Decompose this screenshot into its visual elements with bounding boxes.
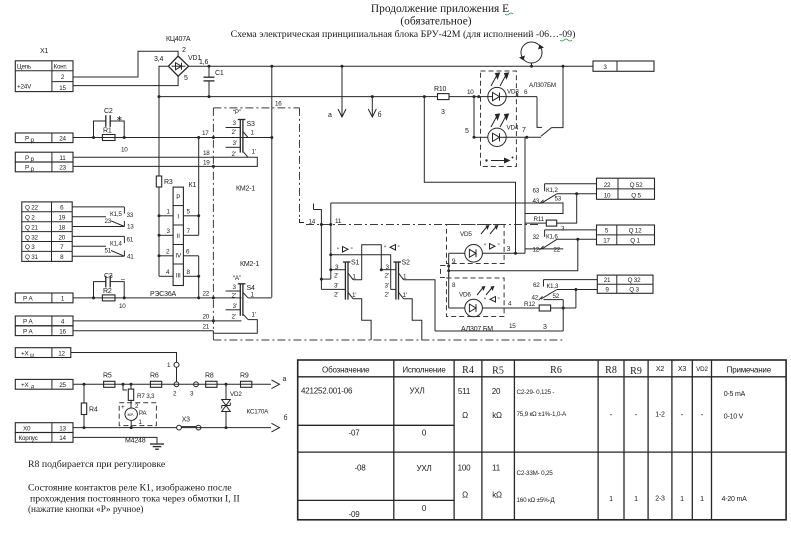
wire VD4 cathode net 7 [506,127,541,139]
svg-text:Q 1: Q 1 [630,238,640,245]
svg-text:16: 16 [275,101,282,108]
svg-text:Ω: Ω [462,491,468,500]
boundary dash-dot bottom [213,339,565,341]
svg-text:17: 17 [202,130,209,137]
LED VD3 [488,87,520,105]
boundary dash-dot left module [212,108,214,340]
capacitor C1 [204,65,224,98]
svg-text:1: 1 [680,496,684,503]
svg-text:М4248: М4248 [125,438,146,445]
ground [73,437,164,449]
svg-text:R5: R5 [492,366,504,377]
table row -09 [349,504,427,519]
capacitor C3 + resistor R2 [92,273,126,301]
svg-text:VD5: VD5 [460,231,472,238]
connector box +Хд 25 [15,379,73,390]
svg-text:Q 3: Q 3 [25,244,35,251]
mark triangle right above S1 [337,247,353,255]
switch S2 [380,260,435,341]
svg-text:R6: R6 [550,365,562,376]
svg-text:КЦ407А: КЦ407А [166,36,191,43]
jumper X3 [177,417,201,431]
bracket pins 9 8 [441,266,449,278]
svg-text:53: 53 [555,195,562,202]
svg-text:10: 10 [467,89,474,96]
K1 pin wires left 1,3,2,4 [158,209,174,277]
svg-text:КС170А: КС170А [247,409,270,416]
svg-text:К1: К1 [189,182,197,189]
svg-text:1,6: 1,6 [199,59,208,66]
svg-text:1: 1 [700,496,704,503]
svg-text:Р: Р [176,194,180,201]
switch contact to bus [541,65,565,137]
svg-text:+: + [121,404,125,411]
output box Q52 Q5 [597,178,655,199]
svg-text:R3: R3 [164,179,173,186]
svg-text:20: 20 [58,234,65,241]
svg-text:б: б [284,414,288,422]
svg-text:Х0: Х0 [23,425,31,432]
svg-text:R4: R4 [89,407,98,414]
svg-text:К1,2: К1,2 [546,187,558,194]
svg-text:33: 33 [127,212,134,219]
svg-text:17: 17 [603,238,610,245]
wire X1.15 to bridge [73,76,178,85]
svg-text:II: II [177,233,181,240]
svg-text:”: ” [351,247,353,254]
relay contact К1,4 [72,236,134,260]
label VD6 + LED arrows [459,286,495,299]
arrow out b [272,423,280,432]
wire b-line bottom [73,427,177,429]
svg-text:2-3: 2-3 [655,496,665,503]
relay contact К1,5 [72,207,134,231]
arrow a from top bus [328,65,346,119]
svg-text:Обозначение: Обозначение [322,366,370,375]
svg-text:VD2: VD2 [230,391,242,398]
svg-text:14: 14 [309,219,316,226]
bottom bus [159,66,168,96]
output box Q32 Q3 [597,275,653,293]
svg-text:Q 3: Q 3 [629,286,639,293]
svg-text:Q 2: Q 2 [25,215,35,222]
svg-text:22: 22 [203,291,210,298]
wire X1.2 to bridge [73,51,178,77]
relay contact К1,3 [532,280,598,308]
arrow b from bottom bus [368,95,381,119]
svg-text:1': 1' [403,292,407,299]
svg-text:43: 43 [533,198,540,205]
svg-text:19: 19 [58,215,65,222]
svg-text:C1: C1 [215,70,224,77]
svg-text:Р А: Р А [23,328,34,335]
svg-text:Р: Р [25,165,29,172]
svg-text:5: 5 [184,75,188,82]
LED arrows VD3 [491,73,509,86]
svg-text:52: 52 [553,293,560,300]
svg-text:+24V: +24V [17,84,32,91]
svg-text:-08: -08 [355,464,367,473]
resistor R10 net 3 [423,86,488,116]
svg-text:III: III [176,273,181,280]
svg-text:VD6: VD6 [459,292,471,299]
svg-text:1-2: 1-2 [655,412,665,419]
svg-text:Q 12: Q 12 [629,228,643,235]
svg-text:+Х: +Х [21,350,29,357]
LED VD6 net 8 / 4 [449,282,540,317]
svg-text:3: 3 [543,324,547,331]
svg-text:10: 10 [121,147,128,154]
svg-text:∗: ∗ [116,114,123,123]
svg-text:160 кΩ ±5%-Д: 160 кΩ ±5%-Д [517,497,556,504]
wire +Хш to X2 pin1 [71,353,177,363]
connector box РА 16 [15,326,73,336]
svg-text:32: 32 [533,234,540,241]
svg-text:“: “ [384,245,386,252]
svg-text:Примечание: Примечание [727,366,772,375]
svg-text:а: а [328,112,332,119]
svg-text:R10: R10 [434,86,447,93]
spellcheck squiggle under Е [505,13,513,15]
mark triangle left VD6 [484,297,500,305]
svg-text:61: 61 [127,237,134,244]
wire net 8 to К1,6 [449,239,578,270]
svg-text:15: 15 [59,85,66,92]
svg-text:14: 14 [59,435,66,442]
svg-text:13: 13 [59,425,66,432]
svg-text:25: 25 [59,382,66,389]
svg-text:а: а [283,376,287,383]
wire K1 link 6-8 to bus 22 [198,256,200,298]
svg-text:(нажатие кнопки «Р» ручное): (нажатие кнопки «Р» ручное) [28,504,143,514]
dashed box VD6 [447,278,505,317]
svg-text:10: 10 [119,303,126,310]
svg-text:S1: S1 [351,260,359,267]
resistor R3 [156,176,173,187]
mark triangle right VD5 [484,243,500,250]
connector box Рр 11 [15,152,73,163]
svg-text:7: 7 [522,127,526,134]
svg-text:Q 31: Q 31 [25,254,39,261]
connector box РА 4 [15,316,73,326]
svg-text:24: 24 [59,136,66,143]
resistor R4 [81,383,98,429]
svg-text:1: 1 [609,496,613,503]
svg-text:R8 подбирается при регулировк: R8 подбирается при регулировке [28,459,166,470]
svg-text:Q 5: Q 5 [631,193,641,200]
svg-text:12: 12 [58,350,65,357]
svg-text:2': 2' [232,129,236,136]
svg-text:18: 18 [203,150,210,157]
K1 pin wires right 5,7,6,8 [183,209,198,277]
svg-text:0-5 mA: 0-5 mA [724,391,746,398]
svg-text:“Р”: “Р” [233,109,241,116]
svg-text:2': 2' [232,151,236,158]
TITLE [231,3,576,40]
svg-text:3': 3' [233,140,237,147]
svg-text:12: 12 [533,247,540,254]
svg-text:20: 20 [203,314,210,321]
svg-text:2': 2' [334,273,338,280]
svg-text:2': 2' [232,314,236,321]
table row -06 [301,387,746,421]
svg-text:Ω: Ω [462,411,468,420]
svg-text:16: 16 [59,328,66,335]
svg-text:R1: R1 [103,128,112,135]
svg-text:С2-33М- 0,25: С2-33М- 0,25 [517,470,554,477]
svg-text:-07: -07 [349,429,361,438]
table row -08 [355,464,748,505]
svg-text:С2-29- 0,125 -: С2-29- 0,125 - [517,389,555,396]
svg-text:421252.001-06: 421252.001-06 [301,387,353,396]
boundary dash-dot middle, pins 14 11 [306,224,540,226]
svg-text:3: 3 [507,246,511,253]
wire node7 vertical [524,137,526,253]
svg-text:75,9 кΩ ±1%-1,0-А: 75,9 кΩ ±1%-1,0-А [517,411,568,418]
svg-text:”: ” [498,297,500,304]
wire РА1 net 10/22 [73,297,242,299]
svg-text:1': 1' [252,149,256,156]
svg-text:Q 22: Q 22 [25,205,39,212]
label VD5 + LED arrows [460,225,499,238]
svg-text:АЛ307 БМ: АЛ307 БМ [461,326,493,333]
resistor R9 [240,373,252,388]
svg-text:19: 19 [203,160,210,167]
svg-text:2': 2' [385,292,389,299]
svg-text:R4: R4 [462,365,474,376]
svg-text:2: 2 [182,47,186,54]
svg-text:11: 11 [59,155,66,162]
svg-text:S2: S2 [402,260,410,267]
svg-text:+Х: +Х [21,382,29,389]
svg-text:1: 1 [634,496,638,503]
output box Q12 Q1 [597,225,655,245]
svg-text:Исполнение: Исполнение [402,366,446,375]
svg-text:kΩ: kΩ [492,411,502,420]
wire A net to К1,2 [331,203,563,214]
svg-text:VD4: VD4 [507,125,519,132]
svg-text:100: 100 [458,464,471,473]
svg-text:б: б [378,111,382,119]
svg-text:(обязательное): (обязательное) [400,16,471,28]
connector box РА 1 [15,293,73,303]
svg-text:11: 11 [492,464,501,473]
wire VD3 cathode net 6 [506,89,542,127]
svg-text:3': 3' [334,283,338,290]
svg-text:5: 5 [465,128,469,135]
svg-text:R2: R2 [103,288,112,295]
svg-text:22: 22 [554,247,561,254]
svg-text:Р А: Р А [23,319,34,326]
milliammeter PA М4248 [119,400,156,444]
svg-text:Q 32: Q 32 [628,277,642,284]
svg-text:41: 41 [127,254,134,261]
svg-text:3: 3 [441,109,445,116]
wire Рр23 net 19 [73,165,213,167]
svg-text:Р А: Р А [23,296,34,303]
connector box Рр 23 [15,162,73,173]
svg-text:Q 21: Q 21 [25,224,39,231]
svg-text:К1,5: К1,5 [110,211,122,218]
wire vertical pin 11 [330,203,332,279]
svg-text:20: 20 [492,387,501,396]
svg-text:511: 511 [458,387,471,396]
svg-text:3,4: 3,4 [154,56,163,63]
top bus + [189,65,593,67]
svg-text:Q 52: Q 52 [630,182,644,189]
wire vertical pin 14 [314,204,322,290]
svg-text:3': 3' [385,283,389,290]
wire main a-line [73,383,271,385]
svg-text:2': 2' [232,293,236,300]
jumper X2 pins 1 2 3 [167,362,198,398]
svg-text:21: 21 [604,277,611,284]
resistor R11 net 3 [525,194,577,233]
svg-text:22: 22 [604,182,611,189]
svg-text:R9: R9 [630,366,642,377]
connector box Рр 24 [15,133,73,144]
svg-text:КМ2-1: КМ2-1 [236,186,255,193]
switch S3 (КМ2-1 "Р") [213,109,257,166]
switch S4 (КМ2-1 "А") [213,275,271,333]
svg-text:23: 23 [105,218,112,225]
svg-text:К1,4: К1,4 [110,241,122,248]
svg-text:Состояние контактов реле К1, и: Состояние контактов реле К1, изображено … [28,483,232,494]
svg-text:R8: R8 [605,365,617,376]
svg-text:Q 32: Q 32 [25,234,39,241]
relay K1 coil РЭС36А [150,182,196,298]
branch minus to VD5 [424,97,515,254]
resistor R7 [122,383,156,401]
resistor R8 [205,373,217,388]
svg-text:51: 51 [105,248,112,255]
wire РА4 net 20 [73,320,242,322]
svg-text:R5: R5 [103,373,112,380]
svg-text:3': 3' [233,303,237,310]
table row -07 [349,429,427,438]
svg-text:13: 13 [127,224,134,231]
arrow out a [272,380,280,389]
svg-text:ш: ш [30,353,34,359]
svg-text:2': 2' [334,292,338,299]
wire Рр24 net 10/17 [73,137,272,139]
feed wire to S2 3' [329,253,390,289]
wire РА16 net 21 [73,330,213,332]
connector box Х0 13 [15,423,73,433]
relay contact К1,6 [525,230,597,254]
svg-text:д: д [31,384,34,390]
svg-text:21: 21 [203,324,210,331]
svg-text:R9: R9 [240,373,249,380]
svg-text:К1,3: К1,3 [547,283,559,290]
svg-text:63: 63 [533,188,540,195]
connector X1 [15,48,73,92]
relay contact К1,2 [533,184,597,205]
svg-text:“: “ [337,247,339,254]
svg-text:4-20 mA: 4-20 mA [722,496,748,503]
svg-text:1': 1' [352,292,356,299]
svg-text:Цепь: Цепь [17,64,32,71]
svg-text:X3: X3 [182,417,190,424]
connector box Корпус 14 [15,433,73,443]
svg-text:1': 1' [252,312,256,319]
svg-text:C2: C2 [104,108,113,115]
svg-text:Р: Р [25,155,29,162]
svg-text:Продолжение приложения Е: Продолжение приложения Е [371,3,509,15]
bottom return wire net 15 [435,300,563,331]
svg-text:Схема электрическая принципиал: Схема электрическая принципиальная блока… [231,29,576,40]
svg-text:11: 11 [335,218,342,225]
svg-text:VD2: VD2 [696,366,708,373]
svg-text:РЭС36А: РЭС36А [150,291,177,298]
switch S1 [320,245,381,340]
svg-text:2': 2' [385,273,389,280]
svg-text:0-10 V: 0-10 V [724,414,744,421]
svg-text:УХЛ: УХЛ [409,387,424,396]
LED arrows VD4 [491,114,509,127]
svg-text:R12: R12 [524,301,536,308]
node dot bus-left [158,95,161,98]
wire K1 link 5-7 from net17 [198,138,200,236]
link VD3-VD4 left [465,95,488,139]
resistor R6 [150,373,162,388]
svg-text:X3: X3 [678,366,686,373]
resistor R12 net 3 [524,301,576,331]
svg-text:-09: -09 [349,510,361,519]
svg-text:“: “ [484,243,486,250]
notes text [28,459,240,514]
connector stack Q22..Q31 [22,202,72,262]
svg-text:прохождения постоянного тока: прохождения постоянного тока через обмот… [30,494,240,505]
mark triangle left above S2 [384,245,400,253]
LED VD5 net 9 / 3 [449,245,525,266]
svg-text:Корпус: Корпус [19,435,38,442]
svg-text:R6: R6 [150,373,159,380]
output box 3 [593,61,654,71]
svg-text:АЛ307БМ: АЛ307БМ [529,82,556,89]
svg-text:“: “ [484,297,486,304]
LED VD4 [488,125,519,147]
svg-text:R8: R8 [205,373,214,380]
svg-text:”: ” [398,245,400,252]
zener VD2 КС170А [222,383,269,429]
svg-text:Р: Р [25,136,29,143]
svg-text:УХЛ: УХЛ [416,464,431,473]
svg-text:kΩ: kΩ [492,491,502,500]
table header row [322,365,772,377]
svg-text:62: 62 [533,282,540,289]
table variants [298,360,786,520]
svg-text:РА: РА [139,410,148,417]
svg-text:КМ2-1: КМ2-1 [240,261,259,268]
svg-text:S3: S3 [247,121,255,128]
svg-text:мА: мА [128,412,134,417]
wire Рр11 net 18 [73,156,246,158]
svg-text:42: 42 [532,295,539,302]
svg-text:X1: X1 [40,48,48,55]
svg-text:18: 18 [58,224,65,231]
rotation symbol [519,42,544,68]
svg-text:Конт.: Конт. [54,64,68,71]
svg-text:“А”: “А” [233,275,241,282]
svg-text:”: ” [498,243,500,250]
svg-text:15: 15 [509,323,516,330]
resistor R5 [103,373,115,388]
svg-text:23: 23 [59,165,66,172]
wire vertical node16 [271,66,273,297]
indicator arrow symbol [485,157,513,164]
dashed box indicator VD3 VD4 [481,71,517,167]
